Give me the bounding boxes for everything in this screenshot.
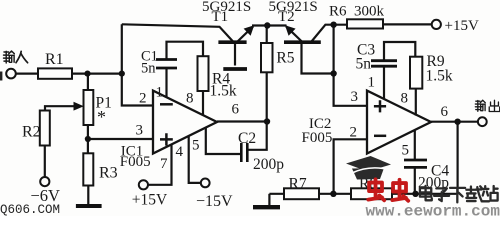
svg-text:200p: 200p [253, 156, 284, 173]
svg-text:6: 6 [232, 102, 240, 118]
svg-text:2: 2 [139, 91, 147, 107]
svg-text:F005: F005 [120, 154, 151, 170]
svg-text:+15V: +15V [132, 192, 168, 209]
svg-text:1: 1 [156, 85, 164, 101]
svg-text:R3: R3 [99, 165, 118, 182]
svg-text:−15V: −15V [196, 193, 233, 210]
svg-text:F005: F005 [302, 130, 333, 146]
svg-text:1.5k: 1.5k [426, 68, 453, 85]
svg-text:T1: T1 [212, 9, 229, 25]
svg-text:R6 300k: R6 300k [329, 4, 385, 20]
svg-text:1: 1 [368, 75, 376, 91]
svg-text:5: 5 [402, 143, 410, 159]
svg-text:5n: 5n [356, 56, 372, 73]
svg-text:R2: R2 [22, 124, 41, 141]
svg-text:Q606.COM: Q606.COM [0, 203, 60, 216]
svg-text:5n: 5n [141, 60, 156, 76]
svg-text:C2: C2 [238, 130, 256, 147]
svg-text:R1: R1 [45, 51, 64, 68]
svg-text:R5: R5 [276, 50, 294, 67]
svg-text:1.5k: 1.5k [210, 82, 237, 99]
svg-text:6: 6 [441, 104, 449, 120]
svg-text:T2: T2 [278, 9, 295, 25]
svg-text:5: 5 [192, 138, 200, 154]
svg-text:2: 2 [350, 125, 358, 141]
svg-text:R7: R7 [289, 176, 307, 193]
svg-text:8: 8 [401, 91, 409, 107]
svg-text:www.eeworm.com: www.eeworm.com [366, 203, 500, 217]
svg-text:+15V: +15V [445, 18, 479, 34]
svg-text:8: 8 [186, 91, 194, 107]
svg-text:*: * [97, 107, 106, 127]
svg-text:3: 3 [136, 123, 144, 139]
svg-text:7: 7 [160, 156, 168, 172]
svg-text:4: 4 [176, 144, 184, 160]
svg-text:3: 3 [351, 89, 359, 105]
